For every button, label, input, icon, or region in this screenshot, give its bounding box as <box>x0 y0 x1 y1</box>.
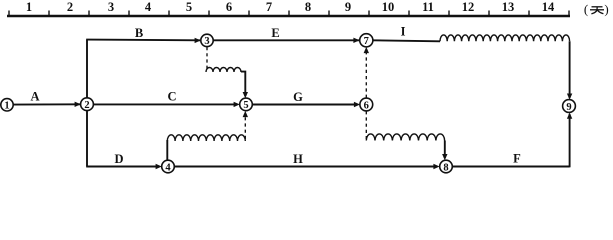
node 4 <box>162 160 175 173</box>
wire: coil end down into node8 top <box>444 141 446 159</box>
svg-text:): ) <box>604 2 608 17</box>
svg-text:13: 13 <box>502 0 515 14</box>
arrowhead B into node3 <box>195 38 201 43</box>
svg-text:(: ( <box>584 2 588 17</box>
wire B: vertical from node2 up <box>86 40 88 98</box>
arrowhead down into node8 top <box>442 154 447 160</box>
arrowhead A into node2 <box>75 102 81 107</box>
wire H: node4 to node8 <box>174 166 434 168</box>
svg-text:F: F <box>513 152 521 166</box>
wire C: node2 to node5 <box>93 103 234 105</box>
wire F: vertical up into node9 bottom <box>569 114 571 167</box>
svg-text:6: 6 <box>226 0 232 14</box>
svg-text:9: 9 <box>345 0 351 14</box>
ruler numbers 1-14 <box>26 0 555 14</box>
node 1 <box>1 99 13 112</box>
svg-text:10: 10 <box>382 0 395 14</box>
svg-text:7: 7 <box>266 0 272 14</box>
arrowhead down into node5 top <box>243 92 248 98</box>
svg-text:1: 1 <box>4 101 9 112</box>
svg-text:5: 5 <box>186 0 192 14</box>
dashed dummy: node6 up into node7 bottom <box>365 50 367 98</box>
ruler main line <box>7 15 570 17</box>
wire: node4 up to float coil <box>166 140 168 160</box>
svg-text:H: H <box>293 152 303 166</box>
svg-text:2: 2 <box>67 0 73 14</box>
svg-text:4: 4 <box>165 162 171 173</box>
svg-text:12: 12 <box>462 0 475 14</box>
svg-text:3: 3 <box>108 0 114 14</box>
wire I: vertical down into node9 top <box>569 41 571 98</box>
arrowhead down into node9 top <box>567 94 572 100</box>
svg-text:8: 8 <box>305 0 311 14</box>
arrowhead G into node6 <box>354 102 360 107</box>
svg-text:1: 1 <box>26 0 32 14</box>
node 3 <box>201 34 213 47</box>
wire: coil end down into node5 top <box>241 72 245 96</box>
float coil under node3 (after B) <box>206 68 241 73</box>
wire A: node1 to node2 <box>13 103 80 105</box>
arrowhead up into node9 bottom <box>567 113 572 119</box>
svg-text:3: 3 <box>204 36 209 47</box>
activity labels <box>30 24 521 166</box>
float coil above node4 (4 to 5) <box>167 135 245 141</box>
node 7 <box>360 34 373 47</box>
node 2 <box>81 98 94 111</box>
svg-text:D: D <box>114 152 123 166</box>
float coil node6 to node8 <box>366 134 444 141</box>
svg-text:I: I <box>401 24 406 38</box>
node 9 <box>563 100 576 113</box>
node 8 <box>440 160 453 173</box>
svg-text:C: C <box>167 89 176 103</box>
svg-text:E: E <box>271 26 279 40</box>
arrowhead C into node5 <box>234 102 240 107</box>
dashed dummy: coil up into node5 bottom <box>244 114 246 139</box>
node 6 <box>360 98 373 111</box>
arrowhead E into node7 <box>353 38 359 43</box>
svg-text:14: 14 <box>542 0 555 14</box>
svg-text:G: G <box>293 90 303 104</box>
ruler ticks <box>9 11 569 17</box>
svg-text:7: 7 <box>364 36 369 47</box>
arrowhead D into node4 <box>156 164 162 169</box>
wire B: horizontal to node3 <box>86 39 200 42</box>
wire E: node3 to node7 <box>213 39 359 41</box>
wire D: horizontal to node4 <box>86 166 156 168</box>
wire D: vertical from node2 down <box>86 110 88 166</box>
dashed dummy: node6 down to coil <box>365 111 367 139</box>
wire F: node8 rightward <box>452 166 569 168</box>
svg-text:A: A <box>30 89 39 103</box>
node 5 <box>240 98 253 111</box>
float coil after I <box>440 35 570 41</box>
svg-text:6: 6 <box>364 100 369 111</box>
svg-text:2: 2 <box>84 100 89 111</box>
svg-text:8: 8 <box>443 162 448 173</box>
wire I: node7 rightward <box>372 40 440 41</box>
wire G: node5 to node6 <box>252 104 354 106</box>
svg-text:9: 9 <box>566 102 571 113</box>
unit label tian glyph <box>590 7 604 14</box>
svg-text:5: 5 <box>243 100 248 111</box>
svg-text:B: B <box>135 26 143 40</box>
svg-text:4: 4 <box>145 0 152 14</box>
arrowhead up into node5 bottom <box>243 111 248 117</box>
arrowhead up into node7 bottom <box>364 47 369 53</box>
dashed dummy: node3 down to coil <box>206 47 208 71</box>
arrowhead H into node8 <box>433 164 439 169</box>
svg-text:11: 11 <box>422 0 434 14</box>
